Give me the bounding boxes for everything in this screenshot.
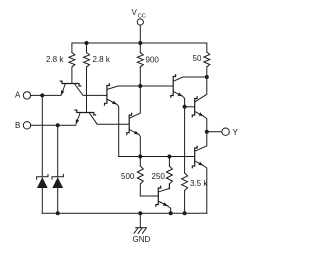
resistor 900	[137, 43, 143, 86]
resistor 50	[204, 43, 210, 77]
wire VCC to bus	[139, 25, 141, 43]
svg-text:CC: CC	[138, 13, 146, 19]
resistor 2.8k left	[69, 43, 75, 82]
power label VCC	[132, 8, 146, 19]
label 2.8k right	[93, 55, 111, 64]
wire splitter emitter to node X	[119, 156, 141, 158]
transistor Q1 emitter	[61, 84, 65, 95]
node 50 junction	[205, 75, 209, 79]
node 3.5k junction	[183, 211, 187, 215]
transistor Q3 emitter	[108, 100, 119, 157]
transistor Q2 base bar	[75, 110, 96, 115]
resistor 250	[166, 157, 172, 189]
label 900	[146, 56, 160, 65]
transistor Q1 base bar	[60, 81, 81, 86]
node 900 junction	[138, 84, 142, 88]
input terminal B	[23, 122, 30, 129]
svg-text:2.8 k: 2.8 k	[93, 55, 111, 64]
label 500	[121, 172, 135, 181]
transistor Q6 collector	[159, 184, 169, 192]
transistor Q1 collector	[75, 84, 107, 95]
wire top bus	[72, 42, 207, 44]
label 250	[152, 172, 166, 181]
transistor Q8 emitter	[195, 161, 206, 213]
wire A to diode D1	[41, 95, 43, 176]
transistor Q6 base bar	[156, 186, 161, 206]
svg-text:3.5 k: 3.5 k	[190, 179, 208, 188]
wire A	[31, 94, 61, 96]
svg-text:B: B	[15, 121, 20, 130]
svg-text:Y: Y	[233, 128, 239, 137]
diode D2	[52, 174, 63, 213]
svg-text:250: 250	[152, 172, 166, 181]
ground	[134, 213, 146, 233]
transistor Q3 base bar	[105, 84, 110, 105]
node A junction	[40, 93, 44, 97]
node D2 junction	[56, 211, 60, 215]
node Darlington junction	[183, 105, 187, 109]
output terminal Y	[222, 128, 229, 135]
VCC terminal	[137, 19, 143, 25]
transistor Q5 emitter	[174, 92, 185, 107]
node GND junction	[138, 211, 142, 215]
transistor Q5 collector	[174, 77, 207, 81]
resistor 500	[137, 157, 157, 197]
node X right junction	[167, 155, 171, 159]
label 2.8k left	[46, 55, 64, 64]
resistor 2.8k right	[84, 43, 90, 111]
node Q6 emitter junction	[169, 211, 173, 215]
transistor Q4 base bar	[127, 113, 132, 134]
svg-text:GND: GND	[133, 235, 151, 244]
node R2 top junction	[85, 41, 89, 45]
diode D1	[37, 174, 48, 213]
node VCC junction	[138, 41, 142, 45]
label B	[15, 121, 20, 130]
node B junction	[56, 123, 60, 127]
node X left junction	[138, 155, 142, 159]
wire node X	[140, 156, 194, 158]
wire 900 node to Q5 base	[140, 85, 173, 87]
svg-text:2.8 k: 2.8 k	[46, 55, 64, 64]
transistor Q8 base bar	[192, 146, 197, 168]
label Y	[233, 128, 239, 137]
node Y junction	[205, 130, 209, 134]
svg-text:A: A	[15, 91, 21, 100]
label 50	[193, 54, 202, 63]
transistor Q7 collector	[195, 77, 206, 102]
transistor Q7 base bar	[192, 97, 197, 117]
label A	[15, 91, 21, 100]
svg-text:V: V	[132, 8, 138, 17]
transistor Q4 emitter	[130, 130, 140, 157]
resistor 3.5k	[182, 107, 188, 213]
wire ground rail	[42, 212, 207, 214]
svg-text:500: 500	[121, 172, 135, 181]
svg-text:50: 50	[193, 54, 202, 63]
transistor Q4 collector	[130, 86, 140, 118]
wire B to diode D2	[57, 125, 59, 177]
transistor Q7 emitter	[195, 112, 206, 132]
wire Y	[207, 131, 222, 133]
label GND	[133, 235, 151, 244]
svg-text:900: 900	[146, 56, 160, 65]
transistor Q3 collector	[108, 86, 173, 89]
transistor Q2 emitter	[76, 113, 80, 124]
transistor Q8 collector	[195, 132, 206, 151]
wire B	[31, 124, 76, 126]
label 3.5k	[190, 179, 208, 188]
wire Darlington node to Q7 base	[185, 106, 195, 108]
transistor Q6 emitter	[159, 202, 171, 214]
input terminal A	[23, 92, 30, 99]
transistor Q2 collector	[89, 113, 128, 124]
transistor Q5 base bar	[171, 75, 176, 98]
